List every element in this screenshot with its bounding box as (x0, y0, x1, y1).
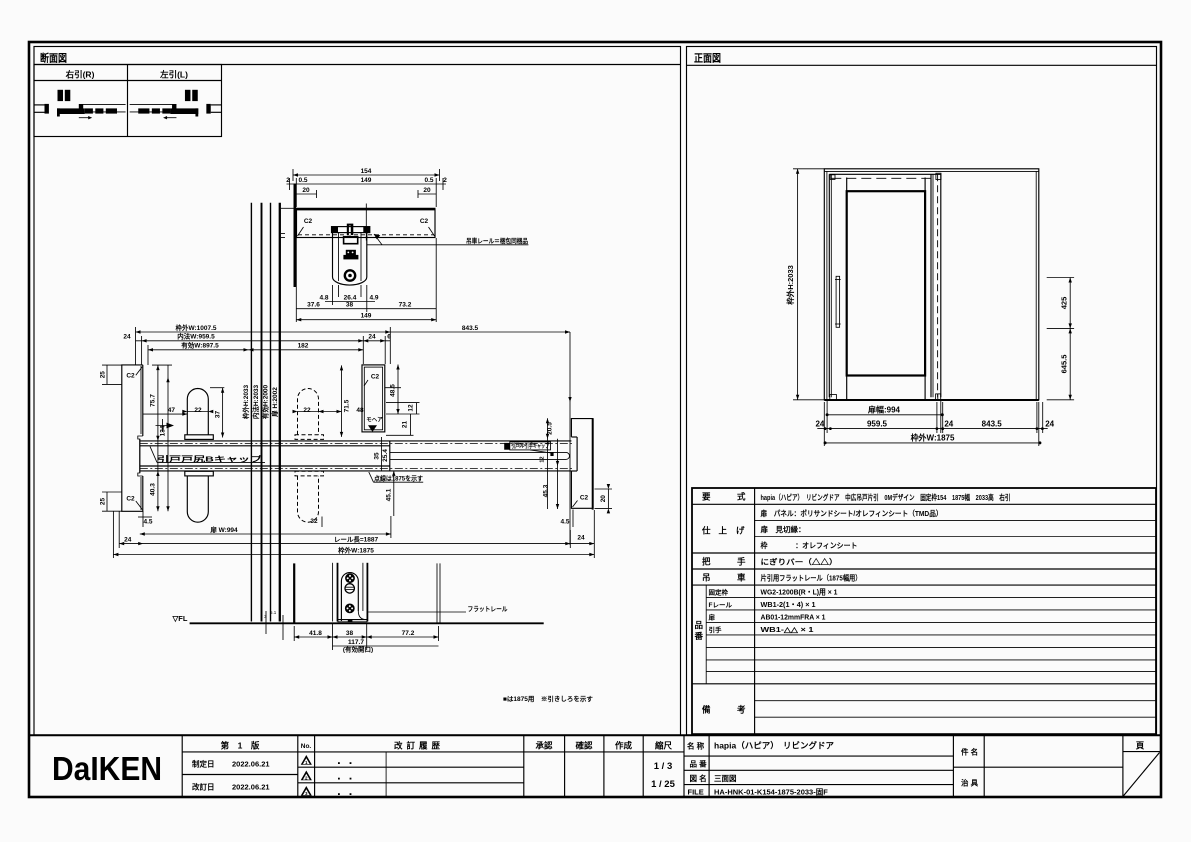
svg-text:把: 把 (702, 557, 711, 567)
svg-text:扉幅:994: 扉幅:994 (867, 405, 901, 415)
svg-text:12: 12 (407, 404, 414, 412)
svg-text:4.8: 4.8 (319, 295, 328, 302)
svg-text:24: 24 (124, 536, 132, 543)
svg-text:WG2-1200B(R・L)用 × 1: WG2-1200B(R・L)用 × 1 (761, 588, 838, 597)
svg-text:47: 47 (168, 407, 176, 414)
svg-text:WB1-△△ × 1: WB1-△△ × 1 (761, 625, 814, 634)
svg-text:引手: 引手 (709, 625, 723, 634)
svg-text:枠外H:2033: 枠外H:2033 (241, 384, 250, 419)
svg-text:37: 37 (214, 411, 221, 419)
svg-text:DaIKEN: DaIKEN (52, 750, 162, 787)
svg-text:扉 W:994: 扉 W:994 (210, 525, 238, 534)
svg-text:75.7: 75.7 (150, 394, 157, 407)
svg-text:24: 24 (944, 420, 953, 429)
svg-text:有効W:897.5: 有効W:897.5 (181, 341, 219, 350)
svg-text:HA-HNK-01-K154-1875-2033-固F: HA-HNK-01-K154-1875-2033-固F (714, 787, 828, 796)
svg-text:C2: C2 (126, 496, 135, 503)
svg-text:C2: C2 (126, 373, 135, 380)
svg-text:AB01-12mmFRA × 1: AB01-12mmFRA × 1 (761, 613, 826, 622)
svg-text:25: 25 (100, 371, 107, 379)
svg-text:20: 20 (600, 495, 607, 503)
svg-text:固定枠: 固定枠 (709, 588, 729, 597)
svg-text:48.5: 48.5 (390, 384, 397, 397)
svg-text:40.3: 40.3 (150, 483, 157, 496)
svg-text:吊: 吊 (702, 573, 711, 583)
svg-text:5.1: 5.1 (270, 610, 277, 615)
svg-text:考: 考 (737, 705, 746, 715)
svg-text:24: 24 (1045, 420, 1054, 429)
svg-text:枠外W:1007.5: 枠外W:1007.5 (175, 323, 216, 332)
svg-text:182: 182 (298, 343, 309, 350)
svg-text:改訂履歴: 改訂履歴 (394, 741, 444, 751)
svg-text:▽FL: ▽FL (172, 614, 188, 623)
svg-text:134: 134 (160, 425, 167, 436)
svg-text:WB1-2(1・4) × 1: WB1-2(1・4) × 1 (761, 600, 816, 609)
svg-text:三面図: 三面図 (714, 774, 737, 783)
svg-text:149: 149 (361, 313, 372, 320)
svg-text:hapia（ハピア） リビングドア: hapia（ハピア） リビングドア (714, 741, 834, 751)
svg-text:25: 25 (100, 498, 107, 506)
svg-text:843.5: 843.5 (462, 325, 479, 332)
svg-text:改訂日: 改訂日 (192, 782, 215, 792)
svg-text:モヘア: モヘア (366, 417, 383, 424)
svg-text:式: 式 (737, 492, 746, 502)
svg-text:4.9: 4.9 (369, 295, 378, 302)
svg-text:24: 24 (368, 334, 376, 341)
svg-text:手: 手 (737, 557, 746, 567)
svg-text:品: 品 (695, 620, 704, 630)
svg-text:枠外W:1875: 枠外W:1875 (910, 433, 955, 443)
svg-text:確認: 確認 (574, 741, 593, 751)
svg-text:扉: 扉 (709, 613, 716, 622)
svg-text:32: 32 (310, 518, 318, 525)
svg-text:117.7: 117.7 (348, 639, 364, 646)
svg-text:hapia（ハピア） リビングドア 中広吊戸片引 0Mデザイ: hapia（ハピア） リビングドア 中広吊戸片引 0Mデザイン 固定枠154 1… (761, 492, 1011, 502)
svg-text:959.5: 959.5 (867, 420, 888, 429)
svg-text:品 番: 品 番 (690, 759, 708, 769)
svg-text:車: 車 (737, 573, 746, 583)
svg-text:仕: 仕 (701, 526, 711, 536)
svg-text:番: 番 (694, 631, 704, 641)
svg-text:■は1875用 ※引きしろを示す: ■は1875用 ※引きしろを示す (503, 694, 593, 703)
svg-text:4.5: 4.5 (143, 519, 152, 526)
svg-text:24: 24 (815, 420, 824, 429)
svg-text:上: 上 (719, 526, 728, 536)
svg-text:右引(R): 右引(R) (65, 70, 95, 80)
svg-text:35: 35 (373, 452, 380, 460)
svg-text:げ: げ (736, 526, 745, 536)
svg-text:扉 パネル：ポリサンドシート/オレフィンシート（TMD品）: 扉 パネル：ポリサンドシート/オレフィンシート（TMD品） (760, 508, 943, 518)
svg-text:2: 2 (443, 177, 447, 184)
svg-text:点線は1875を示す: 点線は1875を示す (374, 474, 423, 483)
svg-text:21: 21 (401, 421, 408, 429)
svg-text:45.1: 45.1 (385, 488, 392, 501)
svg-text:38: 38 (346, 302, 354, 309)
svg-text:要: 要 (702, 492, 711, 502)
svg-text:20: 20 (423, 187, 431, 194)
svg-text:1 / 25: 1 / 25 (651, 779, 675, 790)
svg-text:名 称: 名 称 (687, 741, 705, 751)
svg-text:枠 ：オレフィンシート: 枠 ：オレフィンシート (760, 540, 858, 550)
svg-text:4.5: 4.5 (560, 519, 569, 526)
svg-text:25.4: 25.4 (382, 449, 389, 462)
svg-text:引戸PP引手キャップ: 引戸PP引手キャップ (511, 442, 550, 450)
svg-text:20.5: 20.5 (547, 422, 554, 435)
svg-text:77.2: 77.2 (402, 630, 415, 637)
svg-text:(有効開口): (有効開口) (343, 645, 373, 654)
svg-text:12: 12 (540, 456, 546, 462)
svg-text:425: 425 (1059, 297, 1068, 310)
svg-text:24: 24 (123, 334, 131, 341)
svg-text:図 名: 図 名 (690, 773, 707, 783)
svg-text:吊車レール＝梱包同梱品: 吊車レール＝梱包同梱品 (466, 236, 528, 245)
svg-text:22: 22 (194, 407, 202, 414)
svg-text:制定日: 制定日 (192, 759, 215, 769)
svg-text:治 具: 治 具 (961, 778, 979, 788)
svg-text:No.: No. (301, 743, 312, 750)
svg-text:引戸戸尻Bキャップ: 引戸戸尻Bキャップ (157, 453, 263, 463)
svg-text:有効H:2000: 有効H:2000 (261, 384, 270, 419)
svg-text:縮尺: 縮尺 (655, 741, 673, 751)
svg-text:備: 備 (702, 705, 711, 715)
svg-text:C2: C2 (304, 218, 313, 225)
svg-text:内法W:959.5: 内法W:959.5 (177, 332, 215, 341)
svg-text:頁: 頁 (1136, 741, 1145, 751)
svg-text:承認: 承認 (535, 741, 553, 751)
svg-text:断面図: 断面図 (40, 52, 67, 65)
svg-text:41.8: 41.8 (309, 630, 322, 637)
svg-text:2022.06.21: 2022.06.21 (232, 783, 270, 792)
svg-text:件 名: 件 名 (961, 747, 978, 757)
svg-text:48: 48 (356, 407, 364, 414)
svg-text:38: 38 (346, 630, 354, 637)
svg-text:レール長=1887: レール長=1887 (334, 534, 379, 543)
svg-text:24: 24 (577, 535, 585, 542)
svg-text:作成: 作成 (615, 741, 633, 751)
svg-text:0.5: 0.5 (424, 177, 433, 184)
svg-text:149: 149 (361, 177, 372, 184)
svg-text:73.2: 73.2 (399, 302, 412, 309)
svg-text:枠外H:2033: 枠外H:2033 (785, 265, 795, 306)
svg-text:左引(L): 左引(L) (159, 70, 188, 80)
svg-text:2: 2 (286, 177, 290, 184)
svg-text:843.5: 843.5 (982, 420, 1003, 429)
svg-text:26.4: 26.4 (344, 295, 357, 302)
svg-text:45.3: 45.3 (542, 484, 549, 497)
svg-text:1 / 3: 1 / 3 (654, 761, 673, 772)
svg-text:正面図: 正面図 (694, 53, 721, 65)
svg-text:71.5: 71.5 (344, 399, 351, 412)
svg-text:C2: C2 (420, 218, 429, 225)
svg-text:フラットレール: フラットレール (468, 605, 508, 613)
svg-text:0.5: 0.5 (298, 177, 307, 184)
svg-text:C2: C2 (580, 495, 589, 502)
svg-text:にぎりバー（△△）: にぎりバー（△△） (761, 557, 838, 567)
svg-text:22: 22 (303, 407, 311, 414)
svg-text:Fレール: Fレール (709, 601, 733, 609)
svg-text:内法H:2033: 内法H:2033 (251, 384, 260, 419)
svg-text:FILE: FILE (688, 788, 704, 797)
svg-text:2022.06.21: 2022.06.21 (232, 760, 270, 769)
svg-text:154: 154 (361, 168, 372, 175)
svg-text:C2: C2 (371, 374, 380, 381)
svg-text:37.6: 37.6 (307, 302, 320, 309)
svg-text:枠外W:1875: 枠外W:1875 (338, 545, 374, 554)
svg-text:第 1 版: 第 1 版 (221, 741, 260, 751)
svg-text:645.5: 645.5 (1059, 355, 1068, 374)
svg-text:20: 20 (302, 187, 310, 194)
svg-text:片引用フラットレール（1875幅用）: 片引用フラットレール（1875幅用） (761, 573, 862, 583)
svg-text:扉 見切縁：: 扉 見切縁： (760, 524, 806, 534)
svg-text:扉 H:2002: 扉 H:2002 (270, 387, 279, 417)
